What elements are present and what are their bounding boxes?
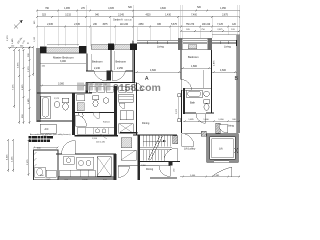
basin store room [103,98,109,104]
svg-text:2,075: 2,075 [45,179,51,180]
left dim top tiny labels [11,43,29,47]
bedroom B dim 1800 [181,67,211,69]
top dim numbers row2 [42,14,229,21]
top dim ticks row2 [36,16,241,18]
svg-text:Dining: Dining [146,168,154,171]
entrance door arc lower [159,166,170,177]
left dim top tick line [8,47,33,49]
kitchen B bottom wall [75,135,119,137]
svg-text:Bath: Bath [190,102,196,105]
master bedroom dim 3000 [40,62,86,64]
svg-text:B: B [235,76,239,82]
kitchen lower counter row [60,170,96,177]
door arc bedroom2 [113,71,126,81]
corridor bottom wall [86,82,135,84]
lift lobby door arc bottom [212,167,232,176]
svg-text:Lift Lobby: Lift Lobby [184,147,196,151]
wall bedroom B / living B lower [211,75,213,89]
wall living A / bedroom B upper [180,50,182,80]
svg-text:4,600: 4,600 [160,8,166,10]
hatched pier right middle [216,123,221,133]
svg-text:2,345: 2,345 [74,24,80,26]
master bedroom bottom wall [37,92,93,94]
svg-text:BW: BW [80,49,85,53]
AC note CJK line1 [29,136,53,139]
lobby column door arc [119,103,125,109]
bay bottom edge [183,49,208,51]
svg-text:3075: 3075 [102,24,108,26]
svg-text:300: 300 [20,45,23,47]
svg-text:7,175: 7,175 [12,84,14,90]
kitchen tall cabinet with X [97,157,111,177]
wall between bedroom1 and bedroom2 [110,50,111,71]
bath B door arc [196,114,206,124]
kitchen B door arc [76,115,87,126]
fixtures row under corridor [89,87,133,93]
bath B toilet [204,100,210,104]
north arrow [14,20,23,29]
BW column bedroom1/bedroom2 [108,44,114,51]
stair left boxes [121,138,132,148]
bath B left wall [183,88,185,114]
svg-text:190 240: 190 240 [202,24,211,26]
toilet unit A [62,98,69,102]
kitchen right wall [114,154,117,180]
bay window hatch box [188,45,197,49]
wall bath A / store [72,93,75,135]
svg-text:1,485: 1,485 [12,38,14,44]
stair mid landing rails [140,147,172,149]
watermark [77,82,161,94]
svg-text:Lift: Lift [219,147,223,151]
svg-text:110 240: 110 240 [120,24,129,26]
svg-text:4520: 4520 [145,14,151,16]
lobby door arc [182,134,195,147]
wall segment left of stair block [120,132,138,134]
duct nubs on dining A wall [178,94,181,97]
svg-text:6,925: 6,925 [22,84,24,90]
svg-text:2,875: 2,875 [217,29,223,31]
lift door opening [214,161,229,163]
svg-text:Living: Living [224,45,231,49]
bedrooms bottom wall with door openings [86,70,133,72]
bedroom1 window band [91,45,108,50]
bath B bathtub [187,90,203,98]
vertical guide lines from dims to plan [37,5,239,48]
wall lobby column right [136,83,138,136]
entrance frame blocks [169,162,173,166]
right outer concrete wall [237,35,240,133]
stair bottom wall [138,161,180,163]
wall between master bedroom and bedroom1 [86,54,88,72]
bedroom2 vertical dim [114,51,116,70]
AC note leader line [85,134,107,139]
left dim rotated numbers [6,53,30,165]
svg-text:2,250: 2,250 [117,67,124,70]
lift shaft outer wall [207,134,239,163]
top dim numbers row3 [47,24,237,26]
bath B bottom wall [183,112,196,114]
rotated numbers beside first ticks [34,20,36,42]
bay column left [178,38,183,50]
stair break line [148,136,160,160]
svg-text:2,875: 2,875 [222,14,228,16]
master bedroom inner wall face [40,52,86,54]
svg-text:2,240: 2,240 [94,67,101,70]
kitchen stove [77,157,94,169]
svg-text:Master Bedroom: Master Bedroom [53,56,74,60]
wall left of stairs [138,135,141,180]
svg-text:Kitchen: Kitchen [103,121,111,124]
bedroom B door arc [181,80,192,91]
svg-text:5,675: 5,675 [171,24,177,26]
svg-text:1,965: 1,965 [64,8,70,10]
door arc bedroom1 [94,71,107,81]
svg-text:1,575: 1,575 [54,98,60,100]
svg-text:1,050: 1,050 [218,119,224,121]
living B window mullions [220,41,228,44]
kitchen top wall [56,153,62,155]
left room counters [35,167,46,177]
svg-text:4,425: 4,425 [6,154,8,160]
svg-text:7,400: 7,400 [191,14,197,16]
master bedroom inner dim line y75 [40,85,86,87]
living B dim 4000 [212,71,237,73]
svg-text:Bedroom: Bedroom [116,60,127,64]
svg-text:1,050: 1,050 [220,8,226,10]
small cabinets lobby column [120,111,133,120]
kitchen door arc [62,141,76,155]
svg-text:Garden A: Garden A [113,19,123,22]
top dim ticks row1 [36,10,241,12]
toilet store room [93,96,99,100]
bedroom1 vertical dim [91,54,93,70]
A/C box [40,124,56,133]
svg-text:2,875: 2,875 [214,60,216,66]
svg-text:4,600: 4,600 [150,69,157,72]
svg-text:95: 95 [27,43,29,45]
column at master window left [40,47,47,54]
top dim extra row right [181,30,240,32]
svg-text:Air-conditioning platform (wit: Air-conditioning platform (with utility … [30,133,71,136]
right wall top post [236,40,240,46]
dim row right middle [183,120,240,122]
svg-text:Dining: Dining [227,125,234,128]
svg-text:1,485: 1,485 [214,175,220,177]
master bedroom balcony edge line [47,43,79,45]
stair up arrow [143,140,166,142]
living B top thin edge [212,34,240,36]
svg-text:Bedroom: Bedroom [188,55,199,59]
bedroom B closet line [203,70,205,88]
left room window ticks [34,152,37,167]
washer box with X [119,124,134,134]
svg-text:Dining: Dining [142,121,150,125]
svg-text:A/C: A/C [45,128,49,131]
stair treads upper flight [143,136,170,147]
svg-text:100 1,135: 100 1,135 [96,141,106,143]
top dimension line 1 [37,11,240,27]
left outer concrete wall [37,48,41,122]
stair right pier hatched [173,136,178,144]
bedroom2 window band [114,45,130,50]
left small room outline [34,150,59,180]
kitchen bottom wall double [58,176,114,178]
svg-text:100 140: 100 140 [124,20,132,22]
corner column bedroom2/living A [130,44,137,51]
svg-text:3,000: 3,000 [58,83,65,86]
svg-text:2,175: 2,175 [27,159,29,165]
svg-text:3,215: 3,215 [65,14,71,16]
main wall bedrooms block / living A [133,41,135,83]
BW column box master/bedroom1 [79,46,87,54]
kitchen B counter [77,128,114,135]
svg-text:Living: Living [157,45,164,49]
living A dim line 4600 [135,71,181,73]
svg-text:1,125: 1,125 [34,36,36,42]
living A window wall [137,41,178,44]
svg-text:2,170: 2,170 [7,35,9,41]
left room top dim line [33,147,59,149]
bay window block [181,37,209,39]
lift car inner [212,139,234,158]
svg-text:7,125: 7,125 [217,24,223,26]
lower walls dining A [118,165,159,167]
wall store bottom [75,112,118,114]
svg-text:1,600: 1,600 [203,119,209,121]
svg-text:150: 150 [11,45,14,47]
svg-text:750 270: 750 270 [186,24,195,26]
svg-text:1,485: 1,485 [28,98,30,104]
svg-text:1,135: 1,135 [11,156,13,162]
left dim ticks [7,46,34,175]
wall living A / dining A lower [181,90,183,133]
svg-text:2,945: 2,945 [47,24,53,26]
lift counterweight X [235,148,239,153]
corridor door arc bottom of kitchen wall [118,166,130,178]
rotated annotation texts top-left [7,35,26,45]
lobby top wall [183,133,207,135]
bath B basin [204,91,210,97]
bath B top edge [185,88,212,90]
corridor door arc into dining A [135,83,143,91]
living B window wall [212,41,237,44]
svg-text:1,485: 1,485 [188,119,194,121]
svg-text:3,075: 3,075 [17,62,19,68]
svg-text:4,305: 4,305 [108,8,114,10]
stair treads lower flight [143,150,170,161]
AC note CJK line2 [29,139,50,142]
svg-text:9158.com: 9158.com [113,82,161,94]
bottom dim line right [180,176,240,178]
shelf unit lobby column [119,94,134,102]
top dim ticks row3 [36,26,241,28]
kitchen sink [63,157,74,165]
bath B right wall [211,88,213,113]
svg-text:4,600: 4,600 [220,69,227,72]
svg-text:2,345: 2,345 [118,14,124,16]
store door arc [93,113,99,119]
door leaf stub between bedroom doors [107,71,112,81]
left dim vertical lines [8,47,33,176]
svg-text:1,600: 1,600 [190,175,196,177]
dining B door arc [219,125,228,134]
living A window mullions [147,41,167,44]
svg-text:2,170: 2,170 [28,66,30,72]
wall bedroom B / living B [211,50,213,75]
wall under bath A to AC [37,120,75,122]
svg-text:1,800: 1,800 [191,65,198,68]
wall store / lobby column [114,86,117,135]
top dim numbers row1 [45,7,227,10]
svg-text:1,430: 1,430 [165,14,171,16]
bay column right [208,38,213,50]
svg-text:3,000: 3,000 [60,60,67,63]
svg-text:2,150: 2,150 [82,179,88,180]
svg-text:2350: 2350 [138,24,144,26]
master bedroom window band [46,48,79,53]
bathtub unit A [41,96,50,119]
svg-text:1,950: 1,950 [92,138,98,140]
hatched pier left of lift [201,131,206,136]
kitchen left wall [57,154,59,177]
stair box top wall [133,134,177,136]
wall corridor / bath area [86,83,89,94]
svg-text:3,275: 3,275 [176,108,178,114]
bottom dim numbers row left [45,179,107,181]
svg-text:Bedroom: Bedroom [92,60,103,64]
basin unit A [54,102,60,108]
lobby door arc upper [164,148,177,161]
fixtures right of bath A wall [77,95,85,101]
